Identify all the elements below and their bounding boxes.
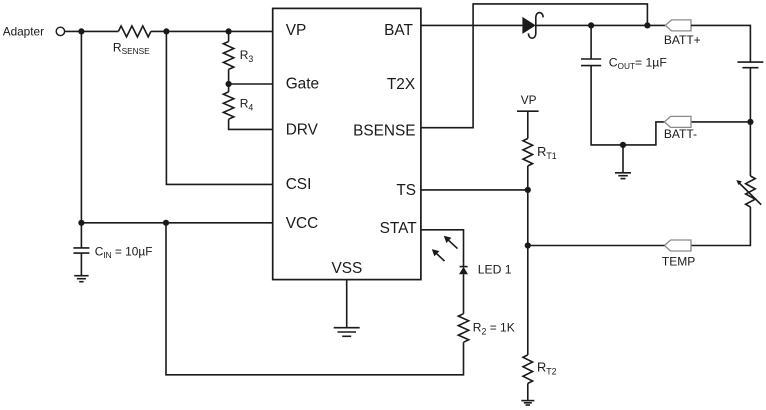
wire ground stub [622, 145, 624, 173]
connector TEMP [664, 240, 691, 251]
svg-text:R4: R4 [240, 96, 254, 112]
svg-text:VSS: VSS [332, 260, 363, 277]
svg-text:RT2: RT2 [537, 359, 557, 376]
wire thermistor to TEMP connector [691, 207, 750, 246]
svg-text:T2X: T2X [387, 76, 415, 93]
svg-text:BATT+: BATT+ [664, 33, 701, 47]
wire battery minus down [749, 68, 751, 176]
junction: COUT top [588, 22, 594, 28]
junction: adapter / CIN branch [78, 28, 84, 34]
svg-text:VP: VP [286, 22, 307, 39]
wire VP to RT1 [527, 111, 529, 138]
svg-text:R3: R3 [240, 48, 254, 64]
svg-text:STAT: STAT [380, 220, 418, 237]
wire adapter terminal to RSENSE [65, 30, 119, 32]
svg-text:CSI: CSI [286, 176, 312, 193]
junction: Gate / R4 [225, 81, 231, 87]
wire R4 top stub [228, 84, 230, 92]
connector BATT+ [665, 20, 691, 31]
resistor R3 [223, 42, 233, 70]
junction: battery minus / BATT- [747, 119, 753, 125]
wire COUT bottom to BATT- return [591, 66, 664, 145]
ground under BATT- return [615, 172, 631, 174]
wire Gate pin [229, 83, 273, 85]
resistor RT2 [523, 355, 533, 384]
svg-text:VCC: VCC [286, 215, 319, 232]
thermistor RT (with arrow) [746, 176, 756, 207]
wire RT1 to TS node [527, 166, 529, 190]
wire BATT- connector to battery column [691, 121, 750, 123]
svg-text:R2 = 1K: R2 = 1K [473, 320, 515, 336]
ground under CIN [74, 275, 88, 277]
wire adapter column down to CIN [80, 31, 82, 248]
LED LED1 [460, 266, 468, 268]
wire VSS pin to ground [346, 280, 348, 328]
svg-text:LED 1: LED 1 [478, 263, 512, 277]
svg-text:TEMP: TEMP [662, 255, 695, 269]
capacitor CIN plates [73, 247, 89, 249]
svg-text:TS: TS [396, 182, 416, 199]
resistor R4 [223, 92, 233, 119]
svg-text:Gate: Gate [286, 75, 319, 92]
wire R3 to Gate [228, 69, 230, 84]
wire VCC rail [81, 222, 273, 224]
svg-text:BSENSE: BSENSE [353, 122, 415, 139]
svg-text:COUT= 1µF: COUT= 1µF [609, 56, 667, 72]
svg-text:RT1: RT1 [537, 144, 557, 161]
diode D1 (with fusible curve) [522, 17, 535, 34]
ground under VSS [334, 327, 360, 329]
LED emission arrow 2 [435, 252, 445, 261]
wire TEMP to thermistor divider [528, 245, 665, 247]
LED emission arrow 1 [447, 239, 458, 249]
op IC U1 body [273, 8, 421, 279]
capacitor COUT top stub [590, 25, 592, 59]
resistor RSENSE [118, 26, 150, 37]
wire BSENSE kelvin loop [421, 4, 648, 128]
svg-text:CIN = 10µF: CIN = 10µF [95, 244, 153, 260]
junction: VP / CSI branch [163, 28, 169, 34]
svg-text:BAT: BAT [384, 22, 413, 39]
wire R3 top stub [228, 31, 230, 41]
svg-text:DRV: DRV [286, 122, 319, 139]
resistor R2 [458, 314, 468, 343]
terminal: Adapter input jack [56, 27, 64, 35]
junction: ground tap on BATT- return [620, 142, 626, 148]
wire BAT pin to diode [421, 24, 523, 26]
wire TS pin to divider [421, 189, 528, 191]
wire RSENSE to VP pin [151, 30, 273, 32]
wire VCC return: down, bottom rail, up to R2 [166, 223, 464, 375]
ground under RT2 [521, 400, 534, 402]
svg-text:BATT-: BATT- [664, 127, 697, 141]
battery BT1 [737, 61, 763, 63]
wire STAT pin to LED [421, 230, 464, 263]
wire CIN to ground [80, 253, 82, 276]
capacitor COUT plates [581, 58, 601, 60]
junction: TS node [525, 187, 531, 193]
svg-text:Adapter: Adapter [3, 24, 44, 38]
junction: VCC / CIN column [78, 220, 84, 226]
wire diode to BATT+ connector [536, 24, 666, 26]
svg-text:RSENSE: RSENSE [113, 40, 150, 56]
svg-text:VP: VP [521, 93, 537, 107]
wire RT2 to ground [527, 383, 529, 400]
wire BATT+ to battery [691, 25, 750, 62]
wire TEMP node to RT2 [527, 246, 529, 355]
resistor RT1 [523, 139, 533, 166]
connector BATT- [664, 116, 691, 127]
junction: VCC / bottom return [163, 220, 169, 226]
junction: TEMP node [525, 242, 531, 248]
wire R4 to DRV pin [229, 119, 273, 129]
junction: VP / R3 branch [225, 28, 231, 34]
wire TS node to TEMP node [527, 190, 529, 246]
wire CSI branch from VP rail [166, 31, 272, 184]
junction: BSENSE rail to BAT+ [644, 22, 650, 28]
